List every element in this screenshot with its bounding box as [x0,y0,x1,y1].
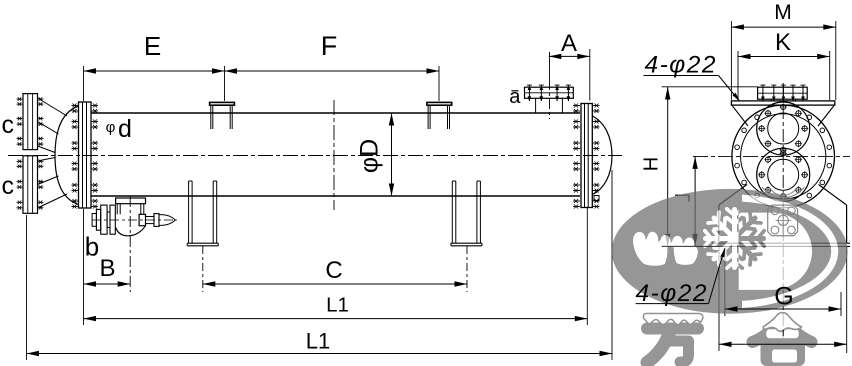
svg-text:φ: φ [106,119,116,136]
svg-text:L1: L1 [326,294,349,317]
svg-text:M: M [774,1,792,24]
svg-text:E: E [144,31,161,61]
svg-text:d: d [118,115,132,143]
svg-text:F: F [321,31,338,61]
svg-text:b: b [85,232,99,262]
svg-text:G: G [774,283,793,311]
svg-text:L1: L1 [306,329,330,354]
svg-text:φD: φD [356,139,384,173]
svg-text:c: c [2,172,15,200]
svg-text:H: H [641,157,663,171]
svg-text:4-φ22: 4-φ22 [636,280,709,307]
svg-text:A: A [561,30,577,57]
svg-text:c: c [2,111,15,139]
svg-text:B: B [99,255,115,282]
svg-text:C: C [325,257,342,284]
svg-text:a: a [509,86,521,108]
svg-text:K: K [775,29,791,56]
svg-text:4-φ22: 4-φ22 [645,52,718,79]
